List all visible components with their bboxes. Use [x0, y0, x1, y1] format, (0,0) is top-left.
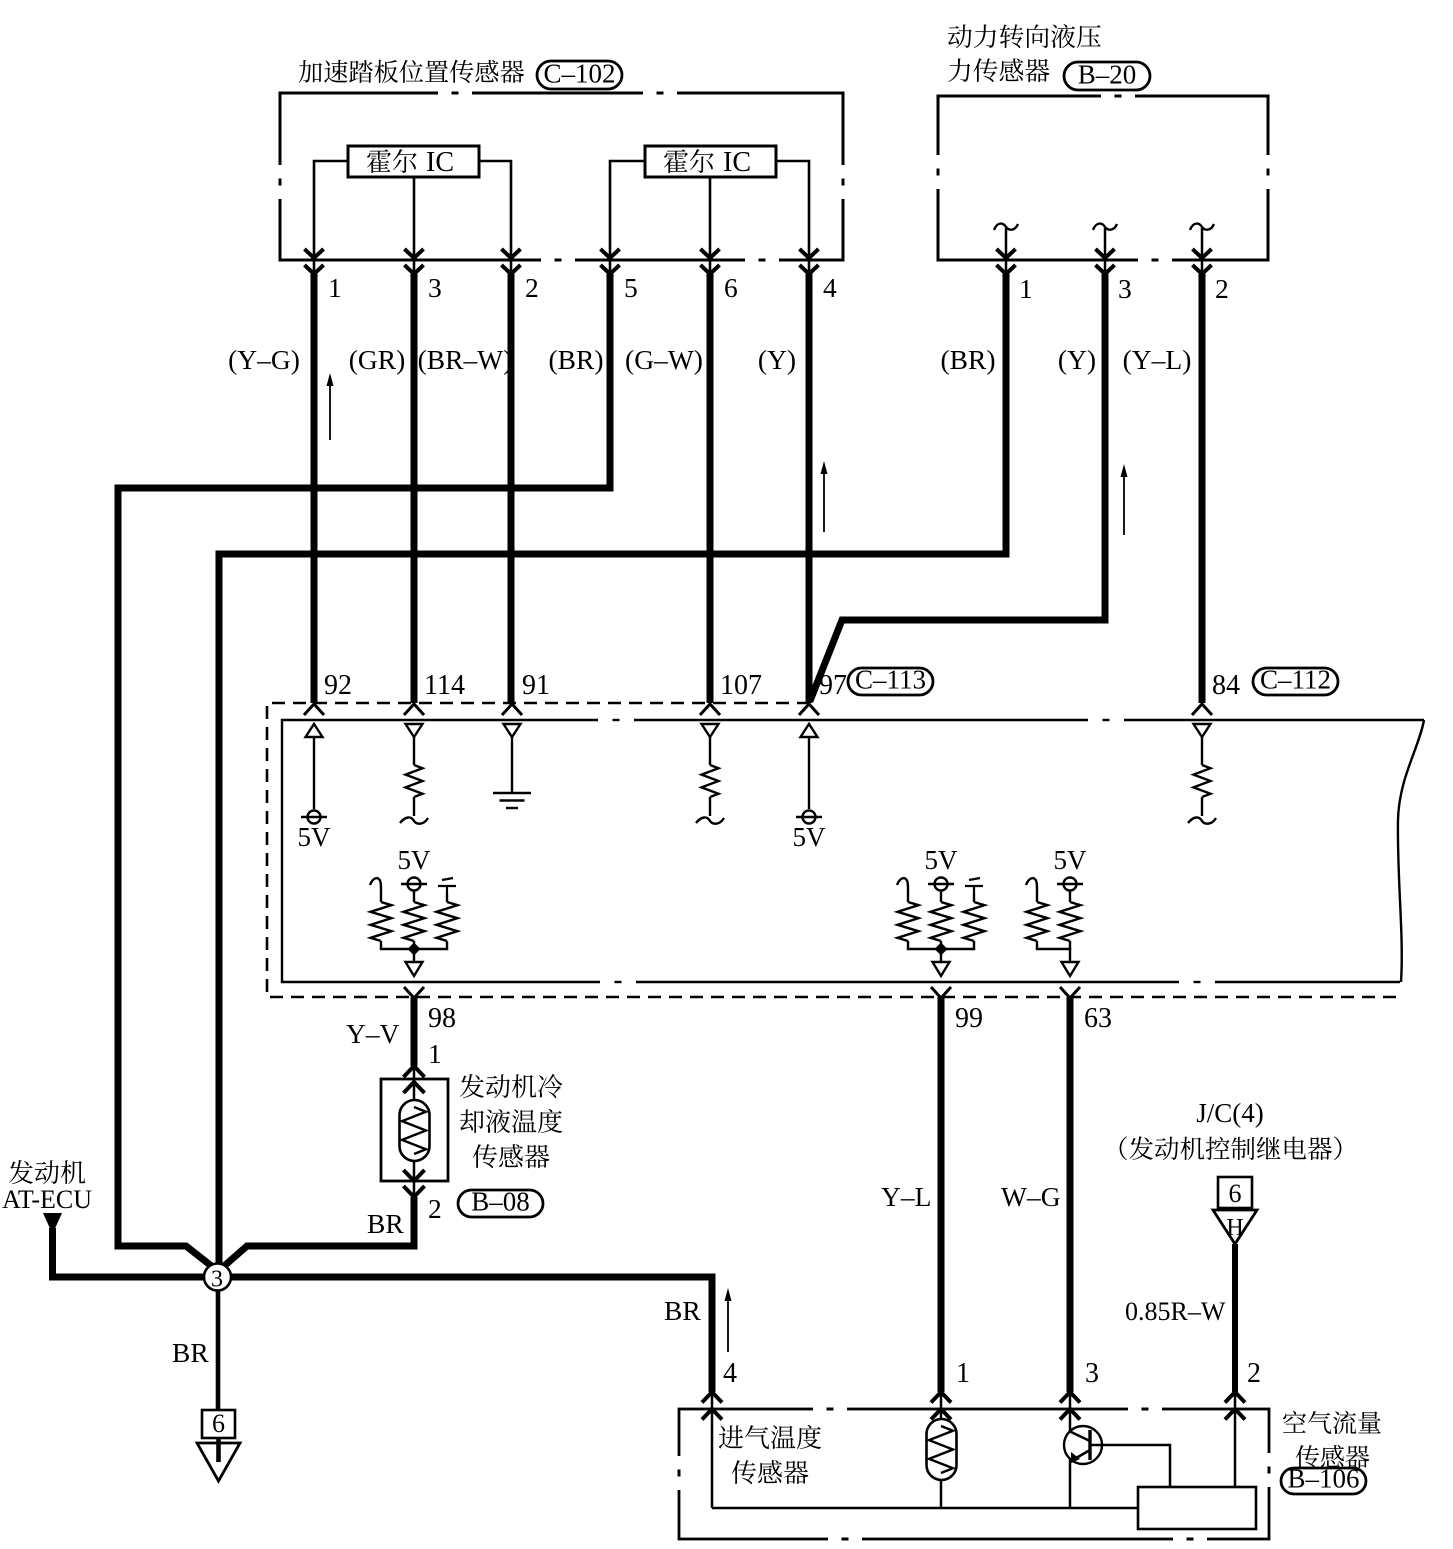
- air flow sensor side title: [1283, 1411, 1381, 1468]
- svg-text:(Y): (Y): [1058, 344, 1096, 375]
- svg-text:97: 97: [819, 670, 847, 701]
- svg-text:IC: IC: [426, 147, 454, 178]
- internal module box: [1138, 1487, 1256, 1529]
- wire pin1 Y-G to ECU 92: [311, 274, 318, 703]
- wire Y-V ECU 98 to B-08 pin 1: [411, 997, 418, 1066]
- wire U1 right to pin2: [479, 161, 511, 274]
- wire colour labels: [228, 344, 1191, 375]
- svg-text:63: 63: [1084, 1003, 1112, 1034]
- wire U1 left to pin1: [314, 161, 348, 274]
- connector badge C-112: [1253, 668, 1338, 695]
- wire pin2 BR-W to ECU 91: [508, 274, 515, 703]
- svg-text:(Y): (Y): [758, 344, 796, 375]
- ground triangle: [197, 1443, 240, 1481]
- svg-text:91: 91: [522, 670, 550, 701]
- svg-text:3: 3: [1085, 1358, 1099, 1389]
- sensor C-102 title: [299, 60, 524, 83]
- svg-text:6: 6: [1229, 1179, 1242, 1208]
- ECU pin 63 exit: [1060, 987, 1080, 998]
- Hall IC U1: [348, 146, 479, 177]
- intake air temp thermistor: [940, 1409, 943, 1423]
- svg-text:2: 2: [428, 1193, 442, 1224]
- svg-text:W–G: W–G: [1001, 1181, 1061, 1212]
- svg-text:H: H: [1226, 1215, 1243, 1241]
- ECU pin 84: [1192, 704, 1212, 715]
- svg-text:6: 6: [212, 1409, 225, 1438]
- ground connector 6: [202, 1410, 235, 1438]
- B-106 pin 2 connector: [1234, 1393, 1237, 1412]
- connector pin 2 C-102: [502, 249, 521, 258]
- relay triangle H: [1213, 1210, 1257, 1244]
- B-106 intake air temp title: [719, 1425, 821, 1484]
- wire B-20 pin3 Y joins ECU 97: [810, 274, 1105, 701]
- ECU inner solid boundary: [282, 720, 1424, 982]
- svg-text:(BR): (BR): [941, 344, 996, 375]
- svg-text:B–20: B–20: [1078, 60, 1137, 90]
- svg-text:(G–W): (G–W): [625, 344, 703, 375]
- wire 0.85R-W to B-106 pin 2: [1232, 1244, 1238, 1392]
- connector pin 1 C-102: [305, 249, 324, 258]
- ECU pin 114: [404, 704, 424, 715]
- transistor base lead: [1090, 1445, 1170, 1487]
- wire AT-ECU to node 3: [49, 1274, 205, 1281]
- wire U2 right to pin4: [776, 161, 809, 274]
- connector badge B-08: [458, 1190, 543, 1217]
- coolant temp sensor B-08 box: [381, 1079, 448, 1181]
- svg-text:BR: BR: [664, 1295, 701, 1326]
- wire U1 bottom to pin3: [413, 177, 416, 274]
- ECU outer dashed boundary: [267, 703, 1400, 997]
- wire pin3 GR to ECU 114: [411, 274, 418, 703]
- wire U2 left to pin5: [610, 161, 645, 274]
- arrow up wire4: [823, 467, 825, 532]
- connector pin 6 C-102: [701, 249, 720, 258]
- svg-text:0.85R–W: 0.85R–W: [1125, 1297, 1226, 1326]
- svg-text:AT-ECU: AT-ECU: [2, 1185, 92, 1214]
- ECU torn right edge: [1398, 720, 1424, 982]
- svg-text:99: 99: [955, 1003, 983, 1034]
- AT-ECU source label: [9, 1160, 85, 1184]
- svg-text:5V: 5V: [793, 822, 827, 852]
- B-08 pin2 connector: [413, 1181, 416, 1197]
- svg-text:B–08: B–08: [471, 1187, 530, 1217]
- svg-text:84: 84: [1212, 670, 1240, 701]
- ECU pin 92: [304, 704, 324, 715]
- arrow up B-20 pin3 wire: [1123, 470, 1125, 535]
- B-08 sensor title: [460, 1074, 563, 1168]
- svg-text:(Y–L): (Y–L): [1123, 344, 1192, 375]
- svg-text:2: 2: [1215, 273, 1229, 304]
- svg-text:B–106: B–106: [1287, 1464, 1359, 1494]
- connector badge C-113: [848, 668, 933, 695]
- svg-text:Y–V: Y–V: [346, 1018, 400, 1049]
- wire B-20 pin1 BR to node 3: [219, 274, 1006, 1266]
- connector pin 3 C-102: [405, 249, 424, 258]
- svg-text:5V: 5V: [925, 845, 959, 875]
- ECU pin 91: [502, 704, 522, 715]
- wire W-G ECU 63 to B-106 pin 3: [1067, 997, 1074, 1392]
- svg-text:BR: BR: [172, 1337, 209, 1368]
- svg-text:C–112: C–112: [1260, 665, 1331, 695]
- internal ground rail: [712, 1507, 1138, 1510]
- B-08 pin1 connector: [404, 1066, 425, 1077]
- svg-text:1: 1: [956, 1358, 970, 1389]
- wire U2 bottom to pin6: [709, 177, 712, 274]
- svg-text:BR: BR: [367, 1208, 404, 1239]
- sensor B-20 title: [948, 24, 1101, 82]
- wire Y-L ECU 99 to B-106 pin 1: [938, 997, 945, 1392]
- svg-text:(GR): (GR): [349, 344, 406, 375]
- internal resistor pin 107: [702, 724, 719, 737]
- arrow up B-106 pin 4 wire: [727, 1294, 729, 1352]
- transistor Q1: [1069, 1409, 1072, 1433]
- relay connector 6: [1218, 1177, 1252, 1208]
- svg-text:IC: IC: [723, 147, 751, 178]
- svg-text:5: 5: [624, 272, 638, 303]
- svg-text:92: 92: [324, 670, 352, 701]
- svg-text:C–113: C–113: [855, 665, 926, 695]
- svg-text:3: 3: [1118, 273, 1132, 304]
- wire pin5 BR to ground node 3: [118, 274, 610, 1268]
- svg-text:107: 107: [720, 670, 762, 701]
- air flow sensor B-106 box: [679, 1409, 1269, 1539]
- svg-text:1: 1: [328, 272, 342, 303]
- svg-text:3: 3: [428, 272, 442, 303]
- ECU pin 98 exit: [404, 987, 424, 998]
- svg-text:5V: 5V: [298, 822, 332, 852]
- wire pin6 G-W to ECU 107: [707, 274, 714, 703]
- svg-text:1: 1: [428, 1038, 442, 1069]
- ECU pin 97: [799, 704, 819, 715]
- svg-text:4: 4: [723, 1358, 737, 1389]
- svg-text:98: 98: [428, 1003, 456, 1034]
- svg-text:5V: 5V: [1054, 845, 1088, 875]
- wire node 3 to B-106 pin 4: [230, 1277, 712, 1392]
- pin2 internal lead: [1234, 1409, 1237, 1487]
- internal resistor pin 114: [406, 724, 423, 737]
- B-20 internal lead pin 2: [1201, 228, 1204, 274]
- svg-text:C–102: C–102: [543, 59, 615, 89]
- svg-text:1: 1: [1019, 273, 1033, 304]
- thermistor element B-08: [400, 1100, 430, 1161]
- connector pin 4 C-102: [800, 249, 819, 258]
- connector badge B-106: [1281, 1468, 1366, 1494]
- svg-text:114: 114: [424, 670, 465, 701]
- source arrow from AT-ECU: [43, 1213, 62, 1234]
- B-20 internal lead pin 3: [1104, 228, 1107, 274]
- internal ground pin 91: [504, 724, 521, 737]
- wire B-20 pin2 Y-L to ECU 84: [1199, 274, 1206, 703]
- wire pin4 Y to ECU 97: [806, 274, 813, 703]
- svg-text:(BR): (BR): [549, 344, 604, 375]
- node 3 junction: [204, 1264, 231, 1291]
- svg-text:3: 3: [211, 1267, 223, 1293]
- wire BR node 3 to ground connector: [216, 1290, 221, 1412]
- ECU pin 99 exit: [931, 987, 951, 998]
- sensor C-102 box: [280, 93, 843, 260]
- svg-text:2: 2: [1247, 1358, 1261, 1389]
- 5V pull-up pin 97: [801, 724, 818, 737]
- Hall IC U2: [645, 146, 776, 177]
- B-106 pin 4 connector: [711, 1393, 714, 1412]
- B-20 internal lead pin 1: [1005, 228, 1008, 274]
- svg-text:(Y–G): (Y–G): [228, 344, 300, 375]
- connector badge B-20: [1064, 62, 1150, 90]
- arrow up wire1: [329, 379, 331, 440]
- svg-text:Y–L: Y–L: [881, 1181, 931, 1212]
- wire BR B-08 to node 3: [223, 1197, 414, 1267]
- svg-text:J/C(4): J/C(4): [1196, 1098, 1264, 1128]
- B-106 pin 3 connector: [1069, 1393, 1072, 1412]
- internal resistor pin 84: [1194, 724, 1211, 737]
- svg-text:4: 4: [823, 272, 837, 303]
- sensor B-20 box: [938, 96, 1268, 260]
- B-106 pin 1 connector: [940, 1393, 943, 1412]
- svg-text:2: 2: [525, 272, 539, 303]
- 5V pull-up pin 92: [306, 724, 323, 737]
- svg-text:5V: 5V: [398, 845, 432, 875]
- svg-text:(BR–W): (BR–W): [418, 344, 513, 375]
- B-106 internal: pin4 lead: [711, 1409, 714, 1508]
- connector pin 5 C-102: [601, 249, 620, 258]
- ECU pin 107: [700, 704, 720, 715]
- connector badge C-102: [537, 61, 622, 89]
- svg-text:6: 6: [724, 272, 738, 303]
